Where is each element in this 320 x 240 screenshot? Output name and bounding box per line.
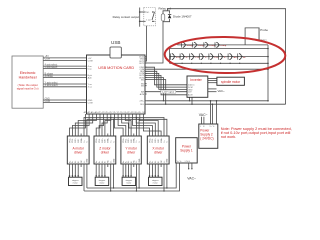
wire handwheel GND y=100.0	[43, 98, 86, 100]
wire Y driver to stepper lead 4	[130, 167, 132, 177]
svg-text:Inverter: Inverter	[190, 78, 202, 82]
svg-text:ENA+: ENA+	[107, 137, 110, 143]
switch A-- S12	[237, 54, 246, 60]
svg-text:Diode 1N4007: Diode 1N4007	[173, 15, 192, 19]
wire card pin 11 to Y driver	[122, 117, 129, 134]
wire relay coil bottom rail	[163, 19, 170, 22]
handwheel title	[19, 71, 37, 79]
X stepper motor box	[149, 177, 163, 185]
wire X driver Vminus to lower bus	[163, 167, 164, 192]
wire inverter W to spindle	[208, 82, 217, 84]
wire X driver to stepper lead 1	[149, 167, 151, 177]
wire A driver to stepper lead 4	[77, 167, 79, 177]
svg-text:DIR-: DIR-	[105, 138, 107, 142]
wire X driver to stepper lead 3	[155, 167, 157, 177]
svg-text:GND: GND	[167, 158, 169, 163]
wire A driver to stepper lead 1	[69, 167, 71, 177]
Z stepper motor label	[99, 179, 106, 185]
wire handwheel +5V y=57.9	[43, 56, 86, 58]
wire inverter VAC stub1	[208, 88, 217, 90]
Y driver top pin 7	[139, 134, 141, 143]
relay contact output vertical wire	[139, 8, 141, 27]
card pin GND right y=58.9	[140, 59, 147, 61]
wire Y driver Vplus to upper bus	[138, 167, 139, 189]
svg-text:signal must be 3 v): signal must be 3 v)	[17, 86, 39, 90]
wire card pin 9 to Y driver	[115, 117, 124, 134]
switch A++ S11	[227, 54, 238, 60]
svg-text:A--: A--	[243, 56, 246, 59]
red highlight ellipse	[165, 36, 286, 73]
wire PS2 riser L1	[210, 100, 212, 124]
junction row2 S10 lower	[220, 63, 221, 64]
switch X-- S6	[179, 54, 188, 60]
Z driver top pin 3	[102, 134, 104, 143]
X motor driver title	[152, 146, 164, 154]
wire Z driver Vminus to lower bus	[110, 167, 111, 192]
wire handwheel Y axis select y=84.0	[43, 81, 86, 84]
wire card IN1 drop to 24V rail	[145, 80, 166, 105]
svg-text:XD-: XD-	[138, 112, 142, 114]
wire switch rows right tie	[267, 45, 269, 101]
wire row2 lower rail	[170, 62, 269, 64]
wire relay coil drive down to card	[145, 22, 163, 63]
svg-text:VAC~: VAC~	[218, 89, 226, 93]
Y motor driver title	[125, 146, 137, 154]
Y driver top pin 4	[131, 134, 133, 143]
svg-text:DIR-: DIR-	[78, 138, 80, 142]
svg-text:ACM: ACM	[188, 94, 193, 97]
A driver bottom pin 6	[84, 160, 86, 167]
wire A driver Vplus corner to upper bus	[86, 167, 88, 188]
Y motor driver box	[121, 136, 141, 164]
X driver top pin 1	[149, 134, 151, 143]
wire handwheel 5 axis select y=68.6	[43, 66, 86, 69]
Z driver top pin 7	[113, 134, 115, 143]
junction row2 S11 lower	[229, 63, 230, 64]
svg-text:ENA+: ENA+	[133, 137, 136, 143]
svg-text:GND: GND	[87, 158, 89, 163]
wire Y driver to stepper lead 1	[122, 167, 124, 177]
wire A driver to stepper lead 2	[72, 167, 74, 177]
card pin AP+ bottom x=85.5	[84, 111, 89, 117]
wire card pin 8 to Z driver	[105, 117, 111, 134]
junction inverter gnd	[189, 100, 190, 101]
svg-text:stepper: stepper	[72, 179, 79, 182]
A driver top pin 5	[80, 134, 83, 143]
X driver bottom pin 3	[155, 160, 157, 167]
wire card pin 15 to X driver	[136, 117, 155, 134]
0-10V signal label box	[161, 90, 176, 94]
wire card COM rail	[147, 100, 268, 102]
wire Y driver to stepper lead 3	[128, 167, 130, 177]
note paragraph red	[221, 127, 292, 139]
card pin OUT4 right y=77.5	[139, 77, 147, 79]
X motor driver box	[147, 136, 169, 164]
Y driver top pin 2	[126, 134, 128, 143]
card pin YP+ bottom x=114.5	[113, 112, 118, 117]
svg-text:driver: driver	[74, 150, 83, 154]
wire card 24V rail	[147, 103, 286, 105]
switch X++ S5	[170, 54, 181, 60]
card pin OUT1 right y=61.0	[139, 61, 147, 63]
inverter box	[187, 76, 208, 97]
A driver bottom pin 4	[78, 161, 80, 167]
svg-text:0-10V signal: 0-10V signal	[162, 92, 175, 94]
card pin ZD+ bottom x=107.2	[105, 112, 110, 117]
wire row2 chain rail	[170, 56, 269, 58]
wire card REV to inverter pin2	[145, 71, 187, 87]
svg-text:VAC~: VAC~	[187, 177, 196, 181]
svg-text:motor: motor	[153, 182, 158, 185]
svg-text:5 axis select: 5 axis select	[45, 66, 58, 69]
Z driver top pin 6	[111, 134, 113, 143]
wire card pin 4 to A driver	[78, 117, 96, 134]
wire PS1 AC pin L	[188, 163, 189, 170]
wire card pin 1 to A driver	[70, 117, 86, 134]
svg-text:driver: driver	[154, 150, 163, 154]
relay coil K1	[161, 14, 165, 21]
wire row1 chain rail	[177, 44, 268, 46]
svg-text:NO: NO	[146, 12, 149, 14]
X driver bottom pin 5	[161, 160, 163, 167]
card U1 USB MOTION CARD box	[87, 55, 146, 114]
A driver bottom pin 5	[81, 160, 83, 167]
A driver bottom pin 2	[71, 161, 74, 167]
USB connector box	[110, 47, 121, 58]
Z driver top pin 2	[99, 134, 101, 143]
A driver bottom pin 3	[75, 160, 77, 167]
svg-text:OUT2: OUT2	[139, 63, 145, 65]
svg-text:USB: USB	[111, 40, 120, 45]
wire inverter gnd drop	[189, 97, 191, 101]
card pin ZP+ bottom x=100.0	[98, 112, 102, 117]
wire X driver Vplus to upper bus	[166, 167, 167, 189]
junction inverter 24v	[191, 104, 192, 105]
switch estop S2	[192, 42, 205, 47]
svg-text:Probe: Probe	[260, 28, 268, 32]
svg-text:X--: X--	[186, 57, 189, 59]
switch Y-- S8	[199, 54, 208, 60]
svg-text:ENA+: ENA+	[160, 137, 163, 143]
svg-text:stepper: stepper	[125, 179, 132, 182]
wire card pin 16 to X driver	[140, 117, 158, 134]
card pin COM right y=69.2	[140, 69, 147, 71]
A driver top pin 4	[78, 134, 80, 143]
wire handwheel COM y=102.5	[43, 101, 86, 103]
wire Z driver to stepper lead 4	[104, 167, 106, 177]
inverter pin labels	[188, 85, 194, 97]
svg-text:stepper: stepper	[99, 179, 106, 182]
svg-text:Supply 1: Supply 1	[180, 149, 193, 153]
Z motor driver title	[99, 146, 111, 154]
card pin DCM right y=73.4	[140, 73, 147, 75]
card pin AP- bottom x=89.1	[88, 111, 92, 117]
card pin AD+ bottom x=92.7	[91, 111, 96, 117]
wire card pin 3 to A driver	[75, 117, 92, 134]
Z driver top pin 5	[107, 134, 110, 143]
switch estop S3	[203, 42, 216, 47]
handwheel note	[17, 83, 39, 90]
X driver top pin 7	[167, 134, 169, 143]
card pin 5V bottom x=143.4	[142, 112, 145, 117]
A stepper motor box	[69, 177, 83, 185]
A driver top pin 7	[87, 134, 89, 143]
svg-text:stepper: stepper	[152, 179, 159, 182]
spindle motor box	[217, 77, 245, 85]
wire PS1 AC pin N	[191, 163, 192, 170]
Y driver top pin 1	[123, 134, 125, 143]
card pin XD- bottom x=139.8	[138, 112, 142, 117]
switch Z-- S10	[218, 54, 227, 60]
svg-text:GND: GND	[139, 158, 141, 163]
junction row2 S7 lower	[191, 63, 192, 64]
card pin XD+ bottom x=136.2	[134, 112, 139, 117]
svg-text:DIR-: DIR-	[158, 138, 160, 142]
A driver top pin 1	[69, 134, 71, 143]
Z driver bottom pin 4	[105, 161, 107, 167]
svg-text:COM: COM	[88, 60, 93, 62]
svg-text:motor: motor	[99, 182, 104, 185]
wire card pin 17 to X driver pin5	[143, 117, 161, 134]
junction right tie row2 chain	[267, 56, 269, 58]
power supply 1 title	[180, 145, 193, 153]
A stepper motor label	[72, 179, 79, 185]
Z driver bottom pin 2	[98, 161, 101, 167]
wire card FWD to inverter pin1	[145, 67, 187, 85]
wire card DCM to inverter pin3	[145, 73, 187, 89]
svg-text:ENA+: ENA+	[80, 137, 83, 143]
svg-text:DIR-: DIR-	[131, 138, 133, 142]
Y driver top pin 5	[133, 134, 136, 143]
wire X driver to stepper lead 2	[152, 167, 154, 177]
X driver top pin 2	[152, 134, 154, 143]
X driver top pin 4	[158, 134, 160, 143]
PS2 top pin labels	[200, 126, 215, 128]
Y driver bottom pin 1	[122, 160, 125, 167]
Y driver bottom pin 2	[125, 161, 128, 167]
X driver top pin 6	[164, 134, 166, 143]
wire PS2 AC L	[200, 117, 202, 124]
junction right tie row1 lower	[267, 48, 269, 50]
wire card pin 14 to X driver	[133, 117, 153, 134]
X driver bottom pin 1	[148, 160, 151, 167]
wire Y driver GND tap	[138, 119, 140, 133]
Z driver top pin 1	[96, 134, 98, 143]
X driver bottom pin 7	[167, 158, 169, 167]
X driver bottom pin 2	[151, 161, 154, 167]
wire PS2 AC N	[203, 117, 205, 124]
X driver bottom pin 6	[164, 160, 166, 167]
svg-text:VAC~: VAC~	[199, 113, 208, 117]
svg-text:Handwheel: Handwheel	[19, 75, 37, 79]
wire card pin 2 to A driver	[72, 117, 89, 134]
svg-text:V+: V+	[210, 126, 212, 128]
wire Z driver GND tap	[113, 119, 115, 133]
wire 5V distribution rail	[84, 118, 164, 134]
power supply 2 title	[200, 129, 213, 141]
Y driver top pin 3	[128, 134, 130, 143]
card pin ACM right y=94.0	[140, 93, 147, 96]
electronic handwheel box	[12, 56, 43, 108]
card pin YP- bottom x=118.1	[117, 112, 121, 117]
svg-text:PUL-: PUL-	[72, 138, 74, 143]
wire card pin 6 to Z driver	[99, 117, 104, 134]
PS1 bottom pin labels	[177, 161, 191, 163]
svg-text:PUL+: PUL+	[123, 137, 125, 143]
wire handwheel X axis select y=86.8	[43, 84, 86, 87]
A driver bottom pin 1	[68, 160, 71, 167]
wire row2 left tie	[169, 49, 171, 64]
svg-text:Y axis select: Y axis select	[45, 81, 58, 84]
switch Y++ S7	[189, 54, 200, 60]
wire row1 lower rail	[170, 48, 269, 50]
svg-text:X axis select: X axis select	[45, 84, 58, 87]
svg-text:not work.: not work.	[221, 135, 237, 139]
svg-text:motor: motor	[126, 182, 131, 185]
wire Z driver to stepper lead 1	[95, 167, 97, 177]
svg-text:USB MOTION CARD: USB MOTION CARD	[98, 66, 134, 70]
Y driver top pin 6	[136, 134, 138, 143]
Y driver bottom pin 7	[139, 158, 141, 167]
svg-text:L: L	[200, 126, 201, 128]
card pin YD+ bottom x=121.7	[120, 112, 125, 117]
wire handwheel 4 axis select y=66.1	[43, 63, 86, 66]
X driver bottom pin 4	[158, 161, 160, 167]
card pin ZP- bottom x=103.6	[102, 112, 105, 117]
svg-text:estop: estop	[220, 44, 226, 47]
card pin IN3 right y=85.7	[141, 86, 147, 88]
A driver top pin 3	[75, 134, 77, 143]
relay contact stub NO	[139, 11, 150, 14]
junction row2 S12 lower	[239, 63, 240, 64]
wire probe right leg down	[258, 28, 260, 40]
svg-text:( 24VDC): ( 24VDC)	[200, 136, 213, 140]
power supply 1 box	[176, 138, 198, 163]
wire card pin 10 to Y driver	[118, 117, 126, 134]
Y stepper motor box	[122, 177, 136, 185]
wire A driver to stepper lead 3	[75, 167, 77, 177]
wire card pin 13 to X driver	[129, 117, 150, 134]
card pin YD- bottom x=125.3	[124, 112, 128, 117]
card pin XP+ bottom x=128.9	[127, 112, 132, 117]
power supply 2 box	[199, 124, 218, 148]
probe loop wire	[245, 28, 259, 45]
card pin IN2 right y=83.7	[141, 84, 147, 86]
card pin FWD right y=67.2	[140, 67, 147, 69]
junction right tie rail meet	[267, 100, 269, 102]
relay contact box	[144, 8, 156, 26]
switch estop S1	[181, 42, 194, 47]
wire PS2 riser L2	[212, 103, 214, 124]
wire card pin 5 to Z driver	[96, 117, 100, 134]
relay contact switch symbol	[152, 11, 155, 22]
wire Y driver 5V tap	[135, 118, 137, 134]
wire switch common return to card	[147, 68, 268, 70]
card pin DC24 right y=56.8	[139, 57, 147, 59]
svg-text:PUL-: PUL-	[152, 138, 154, 143]
A motor driver title	[73, 146, 85, 154]
card pin IN1 right y=79.5	[141, 79, 147, 81]
junction row2 S9 lower	[210, 63, 211, 64]
wire A driver Vminus corner to lower bus	[83, 167, 85, 191]
svg-text:COM: COM	[88, 102, 93, 104]
svg-text:24V+: 24V+	[139, 101, 145, 103]
wire relay output long loop to right edge	[168, 9, 286, 105]
svg-text:driver: driver	[127, 150, 136, 154]
wire card pin 7 to Z driver	[102, 117, 107, 134]
X stepper motor label	[152, 179, 159, 185]
switch Z++ S9	[208, 54, 219, 60]
wire DC bus lower	[84, 163, 179, 191]
card pin AVI right y=91.7	[141, 91, 146, 94]
A driver top pin 6	[84, 134, 86, 143]
svg-text:1 out: 1 out	[146, 19, 151, 22]
wire Z driver to stepper lead 3	[101, 167, 103, 177]
Y stepper motor label	[125, 179, 132, 185]
svg-text:Z--: Z--	[224, 57, 227, 59]
Z driver bottom pin 3	[102, 160, 104, 167]
svg-text:A phase: A phase	[45, 75, 54, 78]
Z driver bottom pin 1	[95, 160, 98, 167]
wire inverter U to spindle	[208, 78, 217, 80]
wire handwheel B phase y=75.0	[43, 73, 86, 75]
junction row2 S8 lower	[201, 63, 202, 64]
A motor driver box	[67, 136, 89, 164]
wire GND distribution rail	[87, 119, 167, 133]
card pin AD- bottom x=96.4	[95, 111, 99, 117]
wire X driver to stepper lead 4	[157, 167, 159, 177]
wire relay contact to card pin	[145, 26, 147, 61]
wire Z driver 5V tap	[110, 118, 112, 134]
Y driver bottom pin 5	[134, 160, 136, 167]
Z motor driver box	[94, 136, 116, 164]
wire inverter V to spindle	[208, 80, 217, 82]
svg-text:driver: driver	[101, 150, 110, 154]
svg-text:ACM: ACM	[140, 93, 145, 96]
svg-text:24V-: 24V-	[140, 104, 144, 106]
svg-text:PUL-: PUL-	[99, 138, 101, 143]
card pin REV right y=71.3	[140, 71, 147, 73]
svg-text:L N G: L N G	[185, 161, 191, 163]
wire Y driver Vminus to lower bus	[136, 167, 137, 192]
junction row2 S6 lower	[181, 63, 182, 64]
Y driver bottom pin 6	[136, 160, 138, 167]
wire PS2 riser R	[216, 100, 218, 124]
wire handwheel A phase y=77.5	[43, 75, 86, 78]
X driver top pin 3	[155, 134, 157, 143]
svg-text:GND: GND	[113, 158, 115, 163]
wire card AVI to inverter 0-10V	[145, 91, 187, 93]
svg-text:COM: COM	[45, 101, 50, 103]
svg-text:Electronic: Electronic	[20, 71, 36, 75]
card pin OUT2 right y=63.0	[139, 63, 147, 65]
card pin OUT3 right y=75.4	[139, 75, 147, 77]
wire card pin 12 to Y driver	[125, 117, 131, 134]
Z driver bottom pin 6	[111, 160, 113, 167]
Z driver top pin 4	[105, 134, 107, 143]
wire Y driver to stepper lead 2	[125, 167, 127, 177]
junction right tie row2 lower	[267, 63, 269, 65]
X driver top pin 5	[160, 134, 163, 143]
switch estop S4	[214, 42, 227, 47]
card pin ZD- bottom x=110.8	[109, 112, 113, 117]
card pin XP- bottom x=132.6	[131, 112, 135, 117]
wire inverter 24v drop	[191, 97, 193, 104]
svg-text:Y--: Y--	[205, 57, 208, 59]
Y driver bottom pin 4	[131, 161, 133, 167]
svg-text:spindle motor: spindle motor	[221, 80, 241, 84]
card pin 24V- right y=104.2	[140, 104, 147, 106]
